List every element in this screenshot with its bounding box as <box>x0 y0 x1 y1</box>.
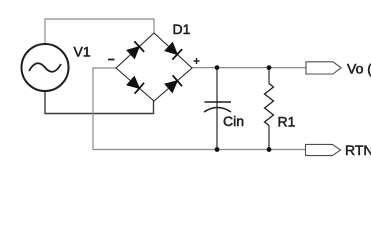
junction dot bottom rail at R1 <box>267 147 272 152</box>
label plus at bridge right <box>194 58 200 64</box>
svg-text:R1: R1 <box>278 114 296 130</box>
capacitor Cin vertical wire <box>216 68 218 150</box>
wire top rail V1 top to bridge top <box>45 19 154 44</box>
diode bottom-right (anode bottom node, cathode right node) <box>165 75 182 92</box>
svg-text:Vo (: Vo ( <box>347 61 371 77</box>
capacitor Cin plates <box>204 102 231 112</box>
svg-text:D1: D1 <box>173 21 191 37</box>
AC source V1 <box>22 44 69 91</box>
diode top-left (anode left node, cathode top node) <box>127 41 144 58</box>
junction dot bottom rail at Cin <box>215 147 220 152</box>
diode top-right (anode top node, cathode right node) <box>165 42 182 59</box>
wire V1 bottom to bridge bottom node <box>45 91 154 114</box>
junction dot top rail at R1 <box>267 65 272 70</box>
wire bridge right node to Vo connector <box>192 67 306 69</box>
connector RTN <box>306 144 341 155</box>
junction dot top rail at Cin <box>215 65 220 70</box>
resistor R1 <box>265 68 274 150</box>
svg-text:V1: V1 <box>74 44 91 60</box>
diode bridge D1 diamond <box>116 33 192 101</box>
diode bottom-left (anode left node, cathode bottom node) <box>127 77 144 94</box>
wire bridge left node to bottom rail <box>93 68 306 150</box>
svg-text:Cin: Cin <box>223 113 244 129</box>
connector Vo <box>306 62 341 74</box>
label minus at bridge left <box>108 59 115 61</box>
svg-text:RTN: RTN <box>345 142 371 158</box>
